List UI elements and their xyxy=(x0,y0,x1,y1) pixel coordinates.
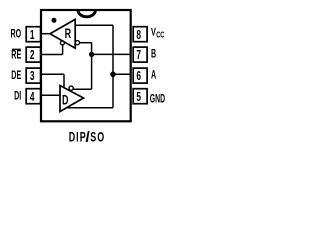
wire: node A stub to pin 6 xyxy=(113,73,131,75)
wire DE: pin3 to driver enable xyxy=(41,73,64,75)
svg-text:2: 2 xyxy=(30,49,35,63)
svg-text:8: 8 xyxy=(136,28,141,42)
receiver enable bubble xyxy=(60,41,64,45)
svg-text:4: 4 xyxy=(30,90,35,104)
pin 6 box xyxy=(133,68,147,83)
wire: receiver enable vertical xyxy=(62,45,64,55)
junction node B xyxy=(89,52,94,57)
pin 2 box xyxy=(26,47,40,62)
wire RO: pin1 to receiver output apex xyxy=(41,33,51,35)
junction node A xyxy=(110,72,116,78)
svg-text:A: A xyxy=(151,69,156,82)
wire: node A vertical riser xyxy=(112,25,114,107)
driver U1b triangle xyxy=(60,86,84,112)
pin 7 box xyxy=(133,47,147,62)
svg-text:GND: GND xyxy=(150,93,165,106)
svg-text:CC: CC xyxy=(156,29,164,40)
svg-text:RO: RO xyxy=(11,28,22,41)
svg-text:7: 7 xyxy=(136,49,141,63)
pin 5 box xyxy=(133,89,147,104)
wire: node B vertical riser xyxy=(91,43,93,89)
svg-text:3: 3 xyxy=(30,70,35,84)
pin 8 box xyxy=(133,27,147,42)
wire: driver inverting output bubble to node B riser xyxy=(73,88,92,90)
IC package outline U1 xyxy=(41,10,131,121)
wire: driver enable vertical xyxy=(63,74,65,88)
package notch (pin-1 end indicator) xyxy=(78,10,96,17)
svg-text:DIP/SO: DIP/SO xyxy=(69,130,106,145)
driver inverting output bubble xyxy=(69,86,73,90)
pin 3 box xyxy=(26,68,40,83)
svg-text:1: 1 xyxy=(30,28,35,42)
svg-text:D: D xyxy=(62,92,68,107)
wire: inverting input to node B riser xyxy=(80,42,92,44)
wire: node B stub to pin 7 xyxy=(92,53,131,55)
wire DI: pin4 to driver input xyxy=(41,94,60,96)
pin-1 indicator dot xyxy=(52,18,57,23)
wire: receiver noninverting input stub to node A riser xyxy=(75,24,113,26)
pin 1 box xyxy=(26,27,40,42)
receiver inverting input bubble xyxy=(75,41,79,45)
svg-text:6: 6 xyxy=(136,70,141,84)
receiver U1a triangle xyxy=(50,19,75,48)
RE overline xyxy=(12,48,21,50)
wire: driver output along bottom to node A riser xyxy=(66,107,113,109)
svg-text:RE: RE xyxy=(11,49,21,62)
svg-text:DE: DE xyxy=(11,69,21,82)
pin 4 box xyxy=(26,89,40,104)
svg-text:B: B xyxy=(151,48,156,61)
wire RE: pin2 to receiver enable xyxy=(41,54,63,56)
svg-text:5: 5 xyxy=(136,90,141,104)
caption DIP/SO slash glyph xyxy=(86,131,90,142)
svg-text:DI: DI xyxy=(14,90,21,103)
svg-text:R: R xyxy=(65,26,72,41)
